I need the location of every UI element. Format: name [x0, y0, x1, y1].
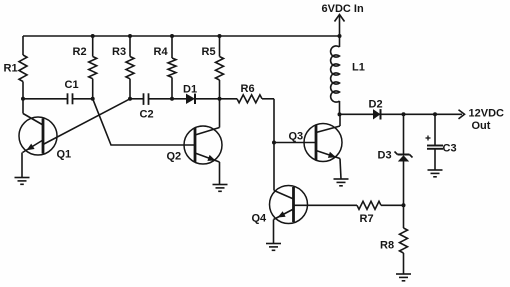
node R4 bottom: [170, 97, 174, 101]
svg-text:C2: C2: [140, 109, 154, 121]
node R5 top: [218, 34, 222, 38]
terminal 12VDC Out arrow: [459, 110, 465, 119]
capacitor C1: [68, 93, 73, 104]
node L1 top / 6VDC feed: [338, 34, 342, 38]
wire C1 to R2 bottom: [73, 98, 93, 100]
label R6: [241, 83, 255, 95]
node Q3 base tap: [272, 141, 276, 145]
wire Q4 base to R7: [294, 204, 358, 206]
ground Q4 emitter: [266, 244, 281, 251]
wire R3 bottom to C2: [130, 98, 144, 100]
label 12VDC: [469, 108, 505, 120]
svg-text:D3: D3: [378, 150, 392, 162]
ground Q1 emitter: [15, 178, 30, 185]
wire Q2 collector up to D1/R5 node: [219, 99, 221, 128]
wire Q1 emitter down: [21, 153, 23, 178]
wire Q3 collector up to L1/D2 node: [339, 114, 341, 126]
svg-text:L1: L1: [352, 62, 365, 74]
node R7/R8/D3 junction: [402, 203, 406, 207]
label C3: [443, 143, 457, 155]
wire R1 bottom to C1: [23, 98, 68, 100]
wire R6 down to Q4: [273, 99, 275, 191]
capacitor C3: [426, 114, 444, 170]
transistor Q2: [184, 126, 222, 164]
node C3 top: [433, 112, 437, 116]
node R4 top: [170, 34, 174, 38]
wire Q1 collector up: [22, 99, 24, 114]
svg-text:R1: R1: [4, 63, 18, 75]
wire D2 node down to D3: [403, 114, 405, 154]
label Q2: [167, 151, 182, 163]
inductor L1: [331, 36, 340, 114]
node R5 bottom / Q2 collector: [218, 97, 222, 101]
label Q1: [57, 149, 72, 161]
svg-text:R5: R5: [202, 46, 216, 58]
svg-text:Q2: Q2: [167, 151, 182, 163]
resistor R6: [220, 95, 275, 103]
wire Q2 emitter down: [219, 162, 221, 185]
label Out: [472, 120, 491, 132]
svg-text:R8: R8: [380, 240, 394, 252]
node R2 bottom / C1: [91, 97, 95, 101]
diode D2: [373, 109, 381, 119]
wire Q1 base cross-couple to R3/C2 node: [43, 99, 130, 145]
wire Q3 base: [274, 142, 316, 144]
label R5: [202, 46, 216, 58]
node D3 top: [402, 112, 406, 116]
svg-text:Q4: Q4: [252, 213, 268, 225]
svg-text:D1: D1: [183, 84, 197, 96]
label R4: [154, 46, 169, 58]
wire Q4 emitter down: [273, 220, 275, 244]
svg-text:C3: C3: [443, 143, 457, 155]
ground Q2 emitter: [213, 185, 228, 192]
node R3 bottom / C2: [128, 97, 132, 101]
svg-text:R4: R4: [154, 46, 169, 58]
diode D1: [186, 94, 195, 104]
resistor R1: [19, 36, 27, 99]
wire D3 to R7/R8 node: [403, 162, 405, 206]
label R1: [4, 63, 18, 75]
ground Q3 emitter: [334, 179, 349, 186]
power 6VDC In terminal: [322, 3, 364, 36]
resistor R5: [216, 36, 224, 99]
resistor R3: [126, 36, 134, 99]
node R3 top: [128, 34, 132, 38]
label R2: [73, 46, 87, 58]
svg-text:R7: R7: [360, 213, 374, 225]
label D1: [183, 84, 197, 96]
svg-text:Q1: Q1: [57, 149, 72, 161]
resistor R4: [168, 36, 176, 99]
transistor Q4: [270, 186, 308, 224]
wire D2 to output: [381, 113, 462, 115]
node L1 bottom / Q3 collector: [338, 112, 342, 116]
label C2: [140, 109, 154, 121]
wire L1 node to D2: [340, 113, 374, 115]
capacitor C2: [144, 93, 149, 105]
label L1: [352, 62, 365, 74]
label R3: [112, 46, 126, 58]
label Q3: [289, 131, 304, 143]
svg-text:Q3: Q3: [289, 131, 304, 143]
resistor R7: [357, 201, 404, 209]
svg-text:Out: Out: [472, 120, 491, 132]
label C1: [65, 79, 79, 91]
svg-text:R3: R3: [112, 46, 126, 58]
svg-text:12VDC: 12VDC: [469, 108, 505, 120]
ground C3: [428, 170, 443, 177]
svg-text:R6: R6: [241, 83, 255, 95]
ground R8: [396, 274, 411, 281]
transistor Q1: [19, 114, 57, 156]
resistor R2: [89, 36, 97, 99]
wire R2/C1 node cross-couple to Q2 base: [93, 99, 195, 145]
label Q4: [252, 213, 268, 225]
label D3: [378, 150, 392, 162]
svg-text:C1: C1: [65, 79, 79, 91]
svg-text:R2: R2: [73, 46, 87, 58]
node R1/C1 junction: [21, 97, 25, 101]
svg-text:D2: D2: [369, 99, 383, 111]
label D2: [369, 99, 383, 111]
wire top supply rail: [23, 35, 340, 37]
wire D1 to R6 node: [196, 98, 220, 100]
wire C2 to D1: [149, 98, 187, 100]
transistor Q3: [304, 124, 342, 162]
resistor R8: [400, 205, 408, 274]
label R7: [360, 213, 374, 225]
label R8: [380, 240, 394, 252]
zener diode D3: [395, 152, 413, 162]
node R2 top: [91, 34, 95, 38]
svg-text:6VDC In: 6VDC In: [322, 3, 364, 15]
wire Q3 emitter down: [340, 159, 341, 180]
